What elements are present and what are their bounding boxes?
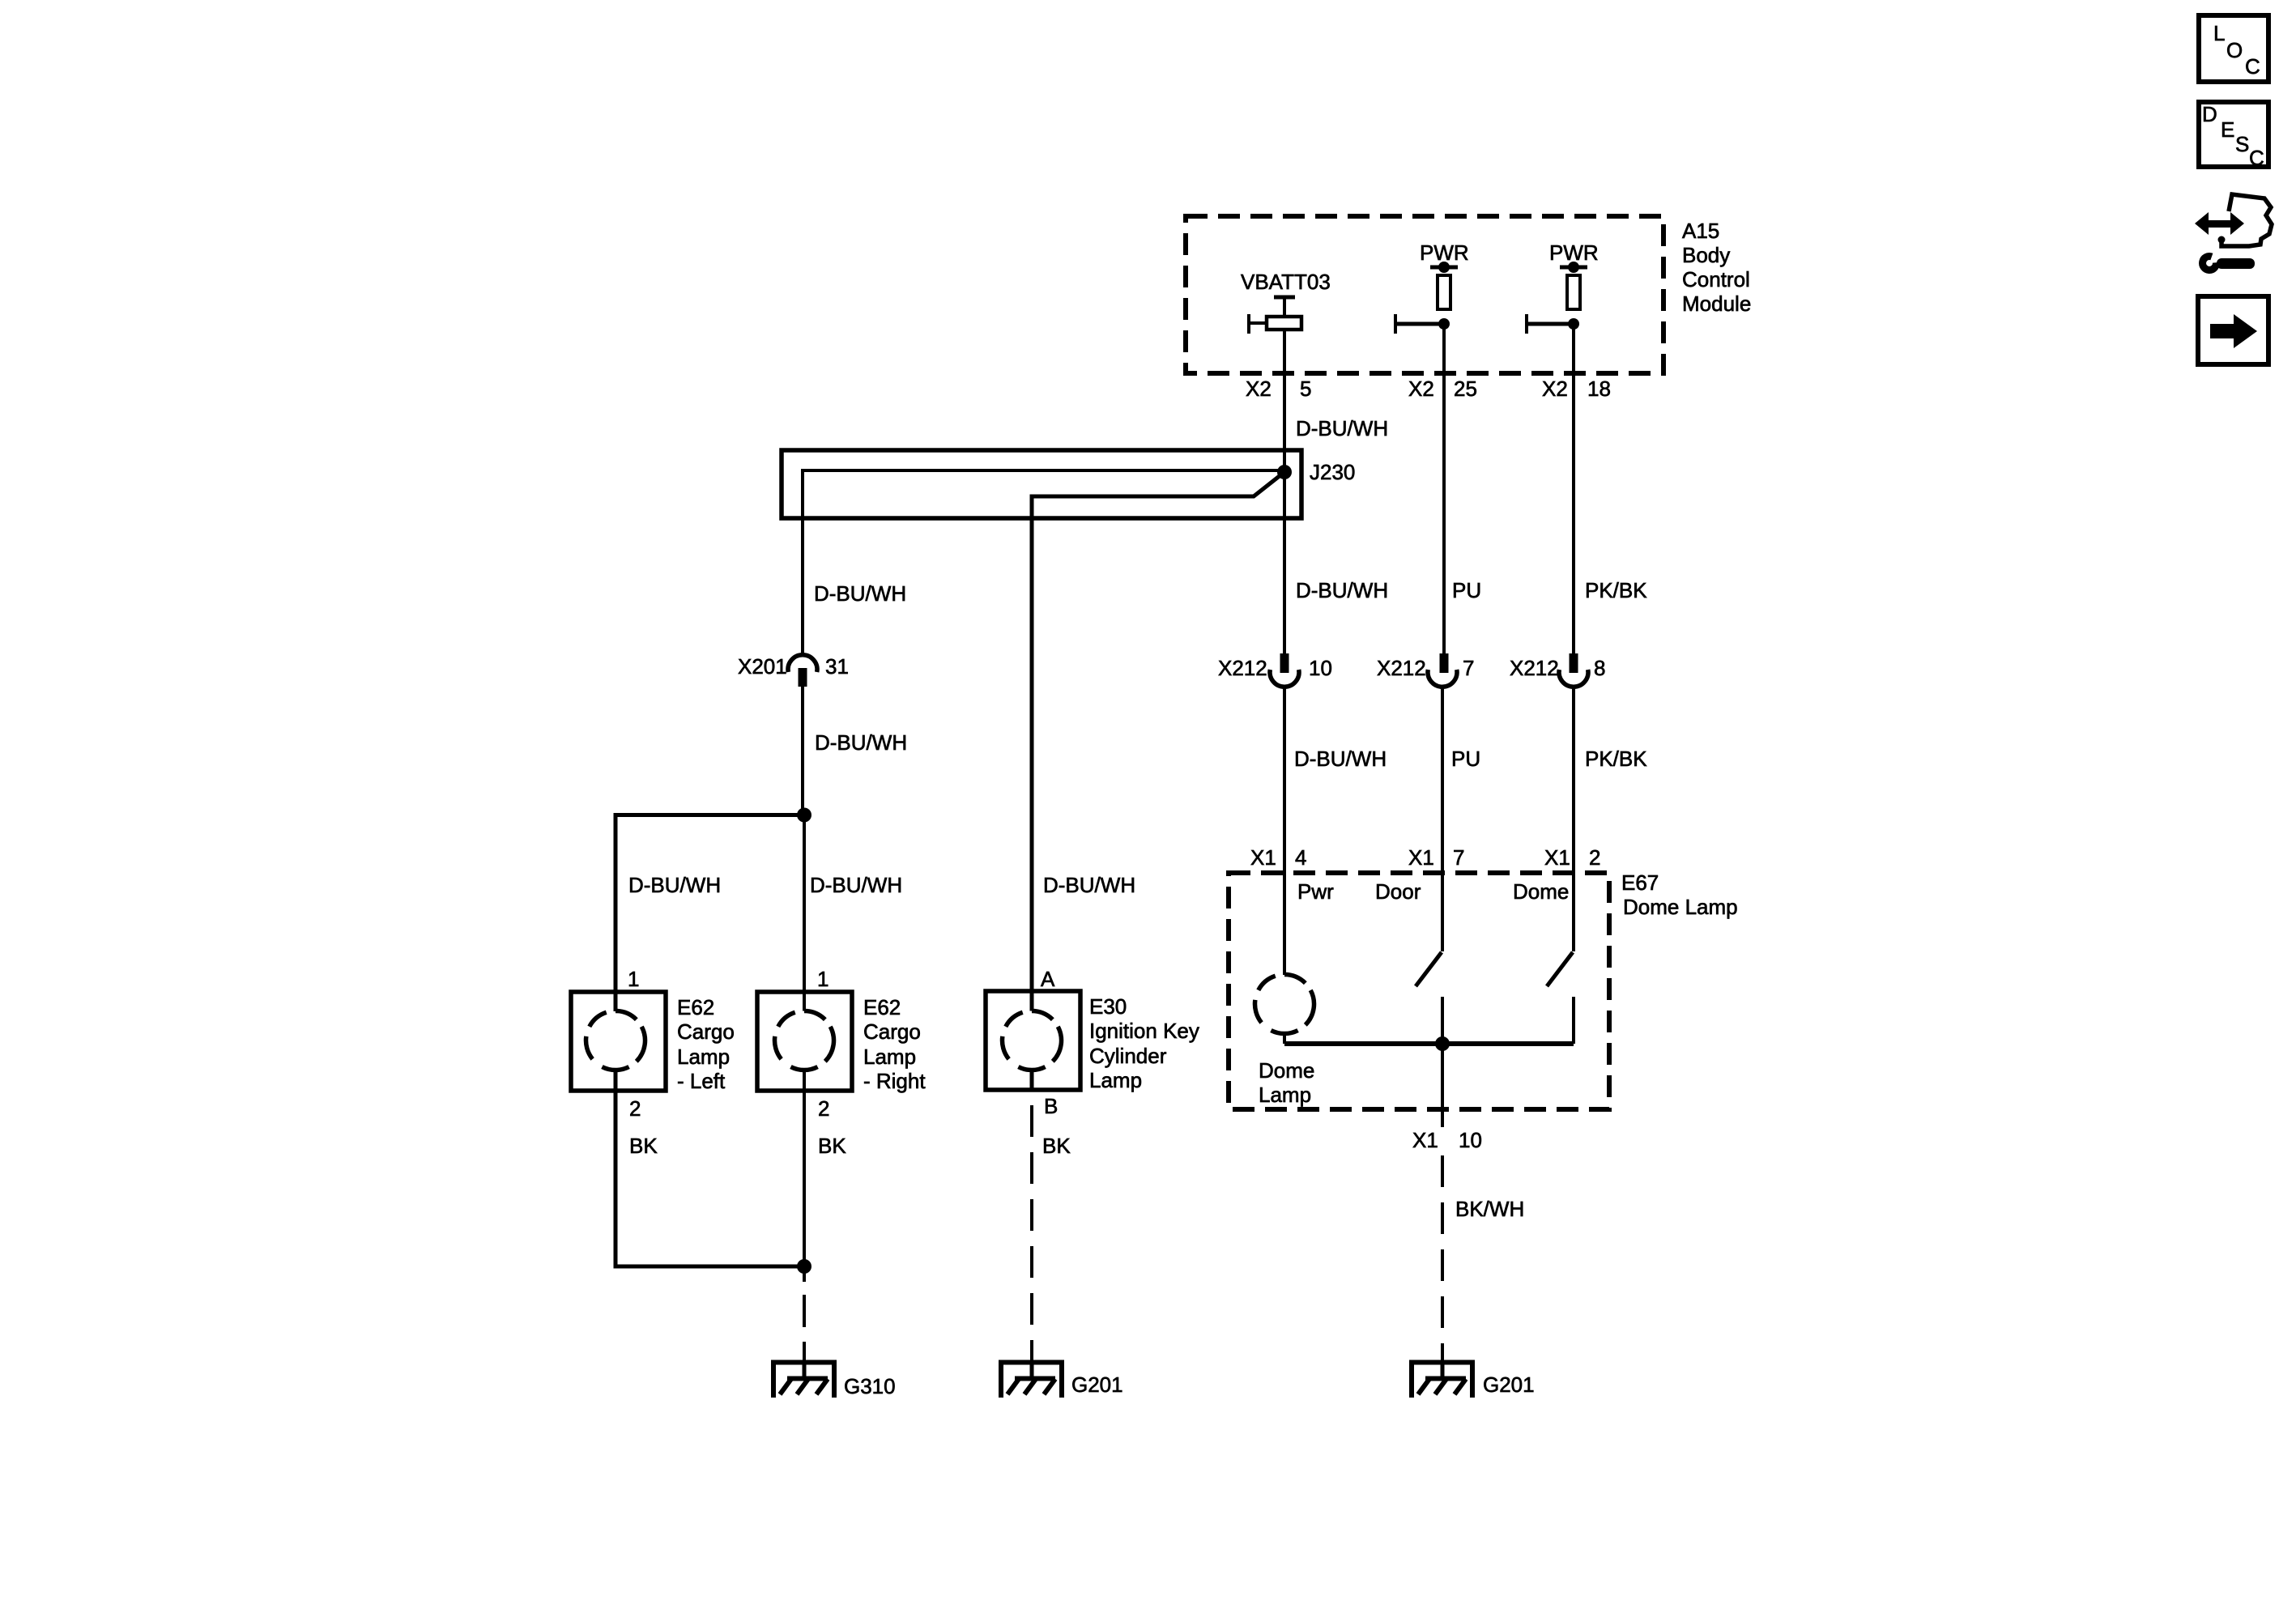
svg-text:D: D xyxy=(2202,102,2217,126)
svg-text:X1: X1 xyxy=(1544,845,1570,870)
svg-text:PK/BK: PK/BK xyxy=(1585,747,1647,771)
svg-text:Dome Lamp: Dome Lamp xyxy=(1623,895,1738,919)
wire splice branch middle (to E30) xyxy=(1032,472,1284,991)
svg-text:E62: E62 xyxy=(863,995,901,1019)
svg-text:PK/BK: PK/BK xyxy=(1585,578,1647,602)
svg-text:PU: PU xyxy=(1452,578,1481,602)
svg-text:X212: X212 xyxy=(1377,656,1426,680)
svg-text:Cargo: Cargo xyxy=(863,1019,921,1044)
svg-text:7: 7 xyxy=(1463,656,1474,680)
pin label X2 25 xyxy=(1408,377,1477,401)
junction dot J230 xyxy=(1277,465,1292,479)
svg-text:31: 31 xyxy=(825,654,849,679)
svg-text:Module: Module xyxy=(1682,291,1751,316)
svg-text:Lamp: Lamp xyxy=(863,1045,916,1069)
svg-text:Ignition Key: Ignition Key xyxy=(1089,1019,1199,1043)
wire bottom loop joining lamps xyxy=(616,1265,804,1269)
svg-text:1: 1 xyxy=(817,967,829,991)
wire dashed to G310 xyxy=(803,1295,806,1363)
wire splice branch left (horizontal in J230) xyxy=(803,470,1284,655)
icon double arrow xyxy=(2195,212,2244,235)
svg-text:Body: Body xyxy=(1682,243,1730,267)
svg-text:B: B xyxy=(1044,1094,1058,1118)
svg-text:D-BU/WH: D-BU/WH xyxy=(810,873,902,897)
svg-text:L: L xyxy=(2213,21,2225,45)
svg-text:8: 8 xyxy=(1594,656,1605,680)
pin label X2 18 xyxy=(1542,377,1611,401)
svg-text:2: 2 xyxy=(629,1096,641,1121)
wire D-BU/WH from X2-5 down to X212-10 xyxy=(1283,330,1286,653)
junction dot dome lamp bus xyxy=(1435,1036,1450,1051)
wire PK/BK X212-8 to dome switch xyxy=(1572,687,1575,951)
label X212 7 xyxy=(1377,656,1474,680)
svg-text:18: 18 xyxy=(1587,377,1611,401)
wire BK/WH dashed to G201 xyxy=(1441,1155,1444,1363)
svg-text:VBATT03: VBATT03 xyxy=(1241,270,1331,294)
svg-text:Lamp: Lamp xyxy=(1259,1083,1311,1107)
svg-text:G201: G201 xyxy=(1071,1372,1123,1397)
svg-text:BK: BK xyxy=(629,1134,658,1158)
label X212 8 xyxy=(1510,656,1605,680)
svg-text:Dome: Dome xyxy=(1513,879,1569,904)
label Dome Lamp (bulb) xyxy=(1259,1058,1314,1107)
svg-text:Lamp: Lamp xyxy=(677,1045,730,1069)
pin label X2 5 xyxy=(1246,377,1311,401)
svg-text:BK: BK xyxy=(818,1134,846,1158)
svg-text:X212: X212 xyxy=(1510,656,1559,680)
svg-text:S: S xyxy=(2235,132,2249,156)
label E62 Cargo Lamp - Left xyxy=(677,995,735,1093)
connector X212 pin 7 xyxy=(1428,653,1457,687)
component E30 Ignition Key Cylinder Lamp box xyxy=(986,991,1080,1090)
splice J230 box xyxy=(782,450,1301,518)
lamp bulb E30 xyxy=(1002,991,1061,1090)
svg-text:C: C xyxy=(2249,146,2264,170)
svg-text:X2: X2 xyxy=(1408,377,1434,401)
svg-text:4: 4 xyxy=(1295,845,1306,870)
switch dome switch blade xyxy=(1547,952,1574,1044)
svg-text:D-BU/WH: D-BU/WH xyxy=(1296,578,1388,602)
icon DESC box xyxy=(2199,102,2268,170)
svg-text:D-BU/WH: D-BU/WH xyxy=(1294,747,1387,771)
svg-text:7: 7 xyxy=(1453,845,1464,870)
svg-text:G310: G310 xyxy=(844,1374,896,1398)
module A15 Body Control Module dashed box xyxy=(1186,216,1663,373)
svg-text:Dome: Dome xyxy=(1259,1058,1314,1083)
svg-text:- Left: - Left xyxy=(677,1069,726,1093)
wire stub to dashed ground lead xyxy=(803,1266,806,1282)
svg-text:E30: E30 xyxy=(1089,994,1127,1019)
ground G201 (dome lamp) xyxy=(1409,1360,1475,1398)
svg-text:BK/WH: BK/WH xyxy=(1455,1197,1524,1221)
pin label X1 10 xyxy=(1412,1128,1482,1152)
wire BK dashed E30 to G201 xyxy=(1030,1105,1033,1363)
fuse PWR (right) xyxy=(1527,262,1587,334)
label E62 Cargo Lamp - Right xyxy=(863,995,926,1093)
wire dome lamp ground lead solid xyxy=(1441,1044,1444,1127)
junction dot ground branch xyxy=(797,1259,811,1274)
svg-text:PWR: PWR xyxy=(1420,240,1469,265)
svg-text:D-BU/WH: D-BU/WH xyxy=(814,581,906,606)
svg-text:10: 10 xyxy=(1459,1128,1482,1152)
svg-text:E: E xyxy=(2221,117,2234,142)
label A15 Body Control Module xyxy=(1682,219,1751,316)
svg-text:D-BU/WH: D-BU/WH xyxy=(1043,873,1135,897)
svg-text:PWR: PWR xyxy=(1549,240,1599,265)
ground G310 xyxy=(771,1360,837,1398)
wire PK/BK from X2-18 down to X212-8 xyxy=(1572,324,1575,653)
switch door switch blade xyxy=(1416,952,1442,1044)
lamp bulb E62 right xyxy=(774,1011,833,1070)
svg-text:X2: X2 xyxy=(1246,377,1272,401)
svg-text:X201: X201 xyxy=(738,654,787,679)
pin label X1 2 xyxy=(1544,845,1600,870)
svg-text:2: 2 xyxy=(1589,845,1600,870)
wire PU from X2-25 down to X212-7 xyxy=(1442,324,1446,653)
wire BK left lamp down xyxy=(614,1070,618,1269)
svg-text:Door: Door xyxy=(1375,879,1421,904)
label X201 31 xyxy=(738,654,849,679)
lamp dome lamp bulb xyxy=(1254,975,1314,1045)
icon part outline xyxy=(2221,194,2272,246)
svg-text:Lamp: Lamp xyxy=(1089,1068,1142,1092)
svg-text:X212: X212 xyxy=(1218,656,1267,680)
lamp bulb E62 left xyxy=(586,992,645,1070)
svg-text:A: A xyxy=(1041,967,1055,991)
component E67 Dome Lamp dashed box xyxy=(1229,873,1609,1109)
svg-text:Cylinder: Cylinder xyxy=(1089,1044,1167,1068)
pin label X1 4 xyxy=(1250,845,1306,870)
svg-text:G201: G201 xyxy=(1483,1372,1535,1397)
svg-text:O: O xyxy=(2226,38,2243,62)
connector X201 pin 31 xyxy=(788,655,817,687)
svg-text:A15: A15 xyxy=(1682,219,1719,243)
svg-text:X1: X1 xyxy=(1408,845,1434,870)
label X212 10 xyxy=(1218,656,1332,680)
svg-text:E67: E67 xyxy=(1621,870,1659,895)
wire BK right lamp down xyxy=(803,1070,806,1267)
svg-text:10: 10 xyxy=(1309,656,1332,680)
component E62 Cargo Lamp Left box xyxy=(571,992,666,1091)
svg-text:X2: X2 xyxy=(1542,377,1568,401)
svg-text:X1: X1 xyxy=(1250,845,1276,870)
icon wrench xyxy=(2203,257,2255,270)
svg-text:J230: J230 xyxy=(1310,460,1355,484)
svg-text:- Right: - Right xyxy=(863,1069,926,1093)
icon LOC box xyxy=(2199,15,2268,82)
svg-text:25: 25 xyxy=(1454,377,1477,401)
svg-text:D-BU/WH: D-BU/WH xyxy=(1296,416,1388,440)
ground G201 (E30) xyxy=(999,1360,1064,1398)
icon arrow box xyxy=(2198,296,2268,364)
pin label X1 7 xyxy=(1408,845,1464,870)
svg-text:X1: X1 xyxy=(1412,1128,1438,1152)
wire tee to left cargo lamp xyxy=(616,815,804,993)
svg-text:2: 2 xyxy=(818,1096,829,1121)
label E30 Ignition Key Cylinder Lamp xyxy=(1089,994,1199,1092)
svg-text:PU: PU xyxy=(1451,747,1480,771)
connector X212 pin 10 xyxy=(1270,653,1299,687)
component E62 Cargo Lamp Right box xyxy=(757,992,852,1091)
svg-text:D-BU/WH: D-BU/WH xyxy=(815,730,907,755)
wire PU X212-7 to door switch xyxy=(1441,687,1444,951)
svg-text:E62: E62 xyxy=(677,995,714,1019)
connector X212 pin 8 xyxy=(1559,653,1588,687)
wire D-BU/WH X201 to tee xyxy=(801,687,804,817)
wire right lamp feed tee to box xyxy=(803,815,806,1011)
svg-text:Pwr: Pwr xyxy=(1297,879,1334,904)
svg-text:Control: Control xyxy=(1682,267,1750,291)
svg-text:1: 1 xyxy=(628,967,639,991)
wire lamp output bus xyxy=(1284,1041,1574,1046)
svg-text:5: 5 xyxy=(1300,377,1311,401)
label E67 Dome Lamp xyxy=(1621,870,1738,919)
svg-text:D-BU/WH: D-BU/WH xyxy=(628,873,721,897)
fuse PWR (left) xyxy=(1395,262,1458,334)
svg-text:C: C xyxy=(2245,54,2260,79)
wire D-BU/WH X212-10 to dome lamp xyxy=(1283,687,1286,975)
svg-text:Cargo: Cargo xyxy=(677,1019,735,1044)
battery feed symbol VBATT03 xyxy=(1249,297,1301,334)
svg-text:BK: BK xyxy=(1042,1134,1071,1158)
junction dot tee xyxy=(797,808,811,823)
